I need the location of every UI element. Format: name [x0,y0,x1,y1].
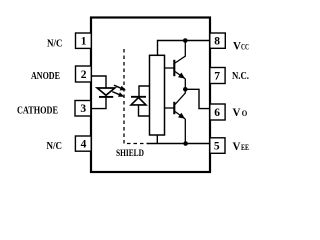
svg-text:N/C: N/C [47,140,62,152]
amplifier block U2 [150,55,165,135]
LED emitter diode D1 [97,88,115,97]
pin 7 box [210,68,225,84]
wire amplifier bottom stub to Vee rail [156,135,158,144]
wire anode lead from pin 2 [91,76,106,89]
shield dashed line [124,49,148,144]
svg-text:7: 7 [214,71,220,83]
wire photodiode anode to amplifier left [139,105,151,116]
svg-text:5: 5 [214,140,220,152]
svg-text:EE: EE [241,142,249,152]
wire Q2 base lead [165,107,175,109]
pin 6 box [210,104,225,120]
node Vo junction [183,87,188,92]
wire Vee rail to pin 5 [147,143,210,145]
pin 3 box [75,101,91,117]
IC body outline U1 [91,18,210,173]
svg-text:N/C: N/C [47,38,62,50]
photodiode D2 [131,97,146,105]
svg-text:CATHODE: CATHODE [17,106,58,117]
pin 4 box [75,136,91,151]
pin 1 box [76,33,92,48]
node Vee junction [183,141,188,146]
svg-text:SHIELD: SHIELD [116,148,144,158]
transistor Q1 [174,41,185,79]
light emission arrow 1 [114,85,126,90]
svg-text:4: 4 [81,139,87,151]
light emission arrow 2 [112,92,124,97]
svg-text:N.C.: N.C. [232,71,249,82]
wire photodiode cathode to amplifier top [139,86,150,97]
svg-text:O: O [242,108,247,118]
wire Q2 emitter to Vee rail [184,119,186,144]
transistor Q2 [174,89,185,119]
pin 5 box [210,138,225,154]
svg-text:CC: CC [241,42,249,51]
pin 2 box [76,66,92,82]
pin 8 label Vcc [233,40,249,52]
svg-text:1: 1 [81,36,87,48]
svg-text:ANODE: ANODE [31,71,60,82]
wire Q1 base lead [165,67,175,69]
pin 6 label Vo [233,107,248,119]
pin 5 label Vee [233,140,250,152]
svg-text:6: 6 [214,107,220,119]
wire cathode lead to pin 3 [91,97,106,109]
node Vcc junction [183,38,188,43]
pin 8 box [210,33,226,48]
wire Q1 emitter to Vo node [184,79,186,90]
svg-text:V: V [233,107,242,119]
svg-text:3: 3 [80,103,86,115]
svg-text:2: 2 [81,69,87,81]
wire Vo node to pin 6 [185,89,210,108]
wire Vcc rail from amplifier to pin 8 [158,41,211,56]
svg-text:V: V [233,140,242,152]
svg-text:8: 8 [214,36,220,48]
svg-text:V: V [233,40,242,52]
